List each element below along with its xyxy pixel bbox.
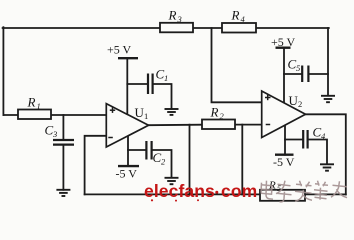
resistor R2 <box>202 105 235 130</box>
wire U2 -5V pin <box>284 126 286 155</box>
wire bottom feedback rail <box>85 193 346 195</box>
ground (C1) <box>165 109 179 115</box>
wire drop from U1 output to bottom rail <box>189 125 191 195</box>
watermark 电子发烧友 (grey squiggles) <box>261 181 347 202</box>
svg-text:U: U <box>135 105 145 120</box>
-5V supply bar U1 <box>116 166 140 180</box>
resistor R5 (under watermark) <box>260 180 305 201</box>
wire top rail junction down to U2 + input <box>212 28 262 102</box>
wire C1 right lead to ground <box>153 84 171 109</box>
wire U1 output row <box>149 124 203 127</box>
wire U2 +5V pin <box>283 48 285 103</box>
svg-text:R: R <box>210 105 219 120</box>
wire C2 left lead <box>128 149 146 151</box>
wire U1 -5V pin <box>127 136 129 166</box>
wire R1 row to U1 + input <box>3 114 106 116</box>
wire U2 output to right drop <box>306 114 346 194</box>
svg-text:R: R <box>231 8 240 23</box>
svg-text:R: R <box>27 95 36 110</box>
svg-text:5: 5 <box>296 63 300 73</box>
ground (top right, R4/C5) <box>321 96 335 102</box>
svg-text:3: 3 <box>52 129 57 139</box>
svg-text:2: 2 <box>298 99 302 109</box>
wire right vertical from top rail to ground <box>327 28 329 96</box>
resistor R3 <box>160 8 193 33</box>
svg-text:com: com <box>221 181 257 201</box>
resistor R4 <box>222 8 256 33</box>
wire left vertical <box>2 27 4 115</box>
capacitor C1 <box>148 67 168 95</box>
wire C1 left lead <box>127 83 147 85</box>
+5V supply bar U2 <box>271 35 296 49</box>
wire C5 right lead <box>309 73 328 75</box>
op-amp U2 <box>262 91 306 138</box>
wire R2 to U2 inverting input <box>235 124 262 126</box>
ground (C3) <box>56 190 70 196</box>
capacitor C2 <box>146 141 166 167</box>
wire U1 inverting input to feedback <box>85 136 107 195</box>
svg-text:+5 V: +5 V <box>271 35 296 49</box>
wire C3 stem upper <box>62 115 64 140</box>
svg-text:1: 1 <box>144 111 148 121</box>
svg-text:-5 V: -5 V <box>273 155 295 169</box>
wire C4 left lead <box>285 139 302 141</box>
svg-text:-5 V: -5 V <box>116 167 138 181</box>
wire top rail <box>3 27 329 29</box>
wire U1 +5V pin <box>126 58 128 114</box>
svg-text:elecfans: elecfans <box>144 181 215 201</box>
resistor R1 <box>18 95 51 120</box>
svg-text:3: 3 <box>177 14 182 24</box>
capacitor C5 <box>288 57 309 83</box>
wire C4 right lead to ground <box>308 140 327 165</box>
ground (C4) <box>320 164 334 170</box>
+5V supply bar U1 <box>107 43 138 59</box>
-5V supply bar U2 <box>273 155 295 169</box>
ground (C2) <box>165 178 179 184</box>
wire C5 left lead <box>284 73 301 75</box>
op-amp U1 <box>106 104 148 147</box>
wire C2 right lead to ground <box>152 150 171 178</box>
wire drop from U2 inverting node to bottom rail <box>241 125 243 195</box>
svg-text:R: R <box>168 8 177 23</box>
elecfans.com red logo <box>144 181 257 202</box>
svg-text:1: 1 <box>164 73 168 83</box>
svg-text:U: U <box>289 93 299 108</box>
wire C3 stem lower <box>62 145 64 190</box>
svg-text:1: 1 <box>37 101 41 111</box>
capacitor C3 <box>45 123 75 145</box>
svg-text:+5 V: +5 V <box>107 43 132 57</box>
capacitor C4 <box>303 125 326 149</box>
